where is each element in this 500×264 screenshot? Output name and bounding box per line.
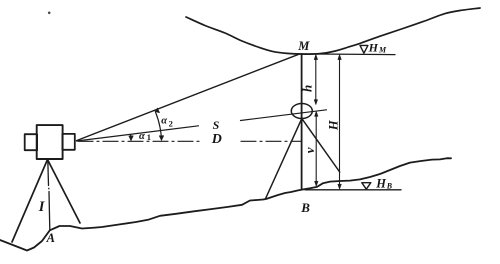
instrument right box bbox=[62, 134, 74, 150]
overhead cable curve bbox=[186, 8, 480, 54]
alpha2 arc bbox=[155, 112, 161, 141]
svg-text:α: α bbox=[139, 131, 145, 142]
svg-text:B: B bbox=[300, 200, 310, 215]
tripod right leg bbox=[48, 160, 81, 224]
svg-text:B: B bbox=[386, 181, 393, 190]
h dimension line bbox=[315, 56, 317, 103]
svg-text:1: 1 bbox=[147, 132, 151, 142]
svg-text:h: h bbox=[299, 85, 314, 92]
target tripod right leg bbox=[302, 119, 340, 173]
speck dot bbox=[48, 12, 51, 15]
instrument main box bbox=[37, 125, 63, 159]
svg-text:M: M bbox=[378, 46, 387, 55]
instrument left box bbox=[25, 134, 37, 150]
target tripod left leg bbox=[266, 119, 302, 199]
tripod left leg bbox=[12, 160, 48, 243]
svg-text:M: M bbox=[297, 39, 310, 53]
svg-text:α: α bbox=[161, 116, 167, 127]
svg-text:v: v bbox=[302, 147, 317, 153]
ground line bbox=[0, 158, 451, 250]
B datum level line bbox=[305, 189, 401, 191]
svg-text:S: S bbox=[213, 118, 220, 132]
M level line bbox=[297, 53, 395, 56]
svg-text:D: D bbox=[211, 132, 222, 147]
svg-text:H: H bbox=[375, 176, 387, 190]
svg-text:2: 2 bbox=[169, 119, 173, 129]
level mark (nabla) at B bbox=[362, 183, 371, 190]
level mark (nabla) at M bbox=[360, 45, 368, 53]
sight line to prism (gentle, gap for S) bbox=[77, 110, 327, 141]
alpha1 arc bbox=[130, 135, 132, 140]
v dimension line bbox=[315, 113, 317, 185]
horizontal dash-dot line D bbox=[78, 140, 199, 142]
prism ellipse bbox=[291, 104, 312, 119]
svg-text:H: H bbox=[327, 119, 341, 131]
svg-text:A: A bbox=[46, 231, 55, 245]
H dimension line bbox=[339, 56, 341, 188]
svg-text:H: H bbox=[368, 41, 379, 55]
sight line to M (steep) bbox=[77, 54, 300, 140]
pole at B bbox=[301, 54, 303, 190]
tripod centre plumb line bbox=[48, 160, 50, 231]
